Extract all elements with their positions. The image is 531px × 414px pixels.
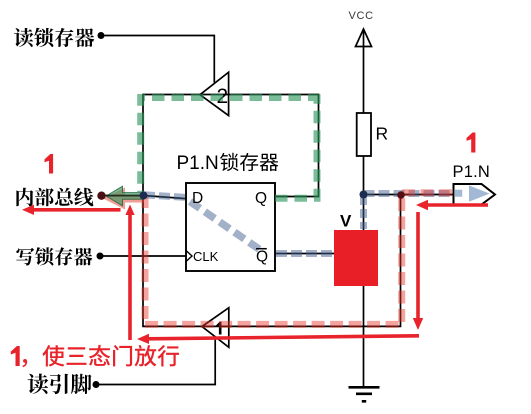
buffer 2 (read latch tri-state) [200, 72, 229, 115]
read-pin label dot [93, 381, 100, 388]
blue dashed path Qbar to V [276, 250, 333, 257]
D latch U1 box [186, 183, 275, 271]
wire internal bus to D input [102, 196, 187, 199]
svg-text:CLK: CLK [193, 249, 219, 264]
svg-text:VCC: VCC [349, 10, 374, 22]
blue dashed path node B down to V [360, 196, 367, 229]
wire green feedback loop: Q output up over buffer 2 back to node A [143, 95, 319, 197]
read-latch label dot [98, 32, 105, 39]
red label 1 right [467, 133, 476, 153]
buffer 1 (tri-state output) [202, 308, 229, 348]
wire read-latch label to buffer 2 [104, 36, 214, 83]
red arrow down right side [416, 212, 420, 319]
transistor V (FET, red block) [334, 230, 378, 286]
resistor R [357, 113, 371, 156]
blue dashed path node B to pin [364, 190, 453, 197]
red arrow on internal bus pointing left [33, 208, 121, 212]
svg-text:Q: Q [256, 249, 268, 266]
ground [349, 387, 380, 401]
internal bus terminal dot [97, 192, 105, 200]
svg-text:V: V [340, 212, 352, 231]
blue dash stub inside pin [455, 190, 462, 197]
svg-text:D: D [192, 190, 203, 207]
red arrow below pin pointing left [427, 203, 488, 207]
feedback node dot [397, 191, 405, 199]
blue triangle inside pin [469, 185, 490, 201]
CLK edge triangle [186, 251, 192, 262]
label: du suo cun qi (read latch) [14, 28, 94, 47]
VCC power symbol [356, 29, 372, 47]
green block arrow onto bus [106, 186, 144, 206]
node A junction dot [140, 192, 148, 200]
label: xie suo cun qi (write latch) [16, 247, 92, 265]
label 1 of buffer [216, 322, 221, 335]
wire through arrows redraw [105, 195, 144, 197]
label: du yin jiao (read pin) [28, 374, 92, 395]
red dashed write path pin to node A [145, 193, 452, 325]
node B junction dot [360, 191, 368, 199]
blue dashed data path node A to D [144, 195, 186, 198]
red annotation text: 1, enables tri-state gate [11, 346, 20, 366]
wire read-pin label to buffer 1 [96, 337, 215, 385]
pin P1.N symbol [454, 184, 496, 205]
red arrow up to bus [128, 215, 132, 341]
blue dashed internal path D to Qbar [190, 202, 264, 253]
red label 1 left [45, 154, 54, 174]
write-latch label dot [97, 253, 104, 260]
wire node B to pin P1.N [364, 195, 455, 197]
wire write-latch label to CLK [100, 255, 186, 257]
svg-text:R: R [376, 124, 389, 144]
label: nei bu zong xian (internal bus) [16, 188, 93, 207]
red block arrow onto bus [103, 188, 144, 210]
green dashed read path [275, 101, 317, 198]
svg-text:P1.N: P1.N [177, 153, 219, 174]
svg-text:Q: Q [255, 190, 267, 207]
long red arrow bottom pointing left [148, 336, 419, 339]
wire feedback loop pin-side down through buffer 1 to node A [143, 195, 401, 326]
wire VCC to resistor to node B and transistor V and ground [363, 31, 365, 387]
wire Qbar output to transistor V [275, 253, 334, 255]
svg-text:P1.N: P1.N [453, 163, 490, 181]
